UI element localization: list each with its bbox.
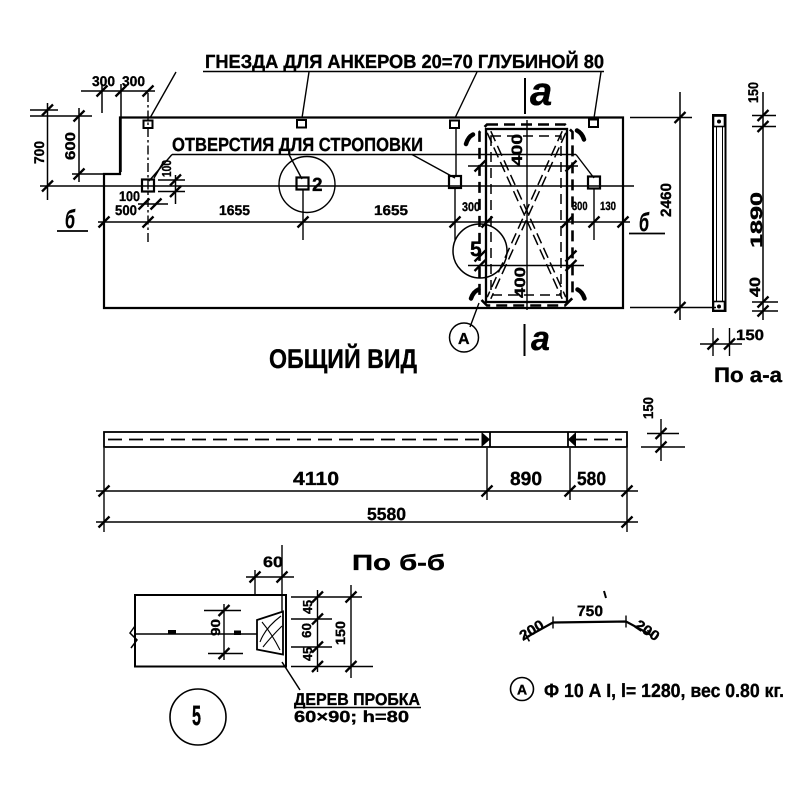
dim 2460 ext bottom: [630, 307, 716, 309]
dim 90 vertical line: [223, 604, 225, 660]
anchor socket 4: [589, 120, 598, 128]
leader to anchor 2: [302, 72, 309, 118]
X diagonal 2 line b: [487, 131, 562, 297]
a-a crossbar y115.5: [752, 115, 776, 117]
b-b plug mark left: [482, 432, 491, 447]
hole1 leader slant: [154, 161, 164, 178]
mini dim line 100: [138, 203, 168, 205]
slinging hole 1: [142, 180, 154, 192]
dashed axis of hole 1: [147, 93, 149, 245]
svg-text:100: 100: [159, 160, 174, 177]
detail5 right dim vertical outer: [350, 585, 352, 678]
ext line y166: [468, 165, 578, 167]
ext line x102: [101, 84, 103, 113]
a-a bottom socket: [714, 302, 725, 311]
b-b height crossbar top: [647, 433, 679, 435]
X diagonal 1 line b: [491, 131, 566, 297]
dim line 300-300: [81, 90, 155, 92]
slinging hole 2: [297, 178, 309, 190]
crossbar y619: [291, 618, 332, 620]
hole1 vert dim line: [175, 175, 177, 204]
svg-text:4110: 4110: [293, 469, 339, 490]
leader to anchor 4: [594, 72, 601, 118]
bar end tick right: [648, 630, 653, 639]
svg-text:750: 750: [577, 603, 603, 620]
a-a dim line vertical: [762, 92, 764, 320]
a-a inner line: [716, 127, 718, 302]
break mark: [130, 626, 137, 648]
opening dashed chamfered outline: [480, 125, 573, 306]
vertical below anchor 3: [455, 128, 457, 177]
leader to anchor 1: [150, 72, 176, 118]
svg-text:5580: 5580: [367, 504, 406, 524]
bent bar polyline: [527, 622, 650, 638]
bar bend tick left: [552, 617, 554, 629]
b-b dim row 1: [96, 490, 638, 492]
underline holes text: [172, 154, 576, 156]
svg-text:А: А: [458, 331, 470, 348]
svg-text:a: a: [531, 320, 550, 358]
a-a top socket: [714, 116, 725, 127]
leader circle A: [470, 303, 479, 327]
dim 2460 ext top: [630, 117, 692, 119]
opening solid rect: [486, 129, 567, 302]
svg-text:60: 60: [299, 623, 314, 638]
svg-text:По б-б: По б-б: [352, 550, 445, 575]
ext below hole 2: [302, 190, 304, 240]
a-a crossbar y302: [752, 301, 778, 303]
leader to anchor 3: [455, 72, 477, 118]
b-b bar outline: [104, 432, 627, 447]
rebar mark 1: [168, 630, 176, 635]
svg-text:Ф 10 А I, l= 1280, вес 0.80 кг: Ф 10 А I, l= 1280, вес 0.80 кг.: [544, 681, 784, 702]
main dimension row: [98, 221, 630, 223]
b-b dim row 2: [96, 521, 638, 523]
crossbar y647: [291, 646, 332, 648]
svg-text:По а-а: По а-а: [714, 364, 782, 387]
b-b ext verticals: [103, 448, 105, 532]
callout circle A: [450, 323, 479, 352]
hole1 ext y180: [158, 179, 185, 181]
svg-text:45: 45: [300, 647, 315, 661]
svg-text:А: А: [517, 682, 527, 698]
crossbar y597: [291, 596, 362, 598]
svg-text:400: 400: [509, 134, 526, 166]
apostrophe mark: [604, 591, 606, 598]
dim 60 ext right: [281, 545, 283, 611]
svg-text:890: 890: [510, 469, 542, 490]
corner bar mark TR: [577, 131, 584, 140]
svg-text:300: 300: [462, 200, 480, 214]
svg-text:300: 300: [572, 199, 588, 213]
dim 700 vertical line: [47, 103, 49, 200]
corner bar mark TL: [466, 135, 473, 145]
corner bar mark BL: [471, 290, 479, 299]
anchor socket 3: [450, 121, 459, 129]
section mark a top: [524, 78, 526, 114]
ext below hole 4: [593, 188, 595, 240]
left ext line top a: [30, 109, 58, 111]
detail 5 outline: [135, 595, 286, 667]
plug grain lines: [260, 616, 281, 642]
svg-text:500: 500: [115, 202, 137, 218]
a-a crossbar y126.5: [752, 126, 776, 128]
ext below hole 3: [454, 188, 456, 240]
svg-text:5: 5: [192, 700, 201, 731]
leader plug: [282, 662, 300, 690]
leader to hole 4: [576, 155, 594, 179]
bar end tick left: [525, 633, 530, 642]
hole1 ext y191.5: [158, 191, 185, 193]
svg-text:700: 700: [31, 141, 47, 164]
svg-text:1655: 1655: [374, 202, 408, 218]
a-a crossbar y311: [752, 310, 778, 312]
detail 5 midline: [135, 633, 257, 635]
dim 60 ext left: [254, 570, 256, 596]
bar bend tick right: [625, 616, 627, 628]
svg-text:ДЕРЕВ ПРОБКА: ДЕРЕВ ПРОБКА: [294, 690, 420, 709]
leader to hole 2: [289, 155, 302, 180]
dim 90 crossbar top: [204, 610, 241, 612]
b-b height dim vertical: [660, 419, 662, 461]
svg-text:2460: 2460: [658, 183, 675, 217]
rebar mark 2: [234, 631, 241, 636]
detail5 right dim vertical inner: [317, 590, 319, 672]
svg-text:б: б: [65, 204, 76, 234]
b-b plug mark right: [568, 432, 576, 447]
svg-text:45: 45: [300, 600, 315, 614]
X diagonal 1 line a: [487, 133, 562, 299]
slinging hole 4: [588, 177, 600, 189]
panel outline: [104, 118, 623, 309]
svg-text:a: a: [530, 70, 552, 114]
corner bar mark BR: [578, 290, 585, 299]
svg-text:400: 400: [512, 267, 529, 298]
leader to hole 3: [412, 155, 455, 179]
anchor socket 2: [297, 120, 306, 128]
svg-text:ОТВЕРСТИЯ ДЛЯ СТРОПОВКИ: ОТВЕРСТИЯ ДЛЯ СТРОПОВКИ: [172, 135, 423, 156]
svg-text:580: 580: [577, 469, 606, 490]
svg-text:300: 300: [92, 73, 115, 89]
dim 60 line: [246, 576, 294, 578]
svg-text:90: 90: [208, 619, 223, 636]
svg-text:60×90; h=80: 60×90; h=80: [294, 709, 409, 726]
a-a bottom width dim line: [700, 343, 742, 345]
crossbar y666.5: [291, 666, 373, 668]
b-b height crossbar bottom: [641, 446, 685, 448]
section axis a-a vertical: [526, 120, 528, 310]
svg-text:б: б: [639, 207, 650, 237]
svg-text:2: 2: [312, 175, 323, 196]
b-b dashed centerline right: [573, 439, 622, 441]
slinging hole 3: [449, 176, 461, 188]
svg-text:150: 150: [745, 82, 761, 103]
dim 90 crossbar bottom: [208, 653, 243, 655]
leader to hole 1: [149, 155, 172, 182]
callout circle 2: [279, 157, 335, 213]
b-b dashed centerline left: [108, 439, 483, 441]
callout circle 5: [453, 224, 507, 278]
section mark a bottom: [524, 324, 526, 356]
ext line y265.5: [468, 265, 584, 267]
svg-text:600: 600: [62, 132, 78, 160]
svg-text:1890: 1890: [748, 192, 766, 248]
svg-text:60: 60: [263, 554, 283, 571]
ext line x121: [120, 84, 122, 172]
svg-text:150: 150: [736, 327, 764, 344]
dim 2460 vertical line: [679, 92, 681, 320]
a-a bottom width dim exts: [712, 328, 714, 356]
wooden plug: [257, 612, 283, 655]
X diagonal 2 line a: [491, 133, 566, 299]
step ext line: [72, 173, 104, 175]
holes centerline: [40, 185, 634, 187]
svg-text:1655: 1655: [219, 202, 250, 218]
inner dashed rect: [491, 136, 561, 295]
svg-text:130: 130: [600, 199, 616, 213]
svg-text:ОБЩИЙ ВИД: ОБЩИЙ ВИД: [269, 343, 417, 374]
anchor socket 1: [144, 121, 153, 129]
section a-a bar: [713, 115, 726, 311]
svg-text:40: 40: [747, 277, 764, 297]
left ext line top b: [30, 115, 92, 117]
svg-text:150: 150: [640, 397, 656, 419]
detail 5 circle: [170, 689, 226, 745]
title underline: [203, 71, 604, 73]
svg-text:5: 5: [470, 238, 482, 261]
circle A bottom: [511, 678, 534, 701]
svg-text:150: 150: [333, 621, 348, 645]
dim 600 vertical line: [78, 108, 80, 182]
